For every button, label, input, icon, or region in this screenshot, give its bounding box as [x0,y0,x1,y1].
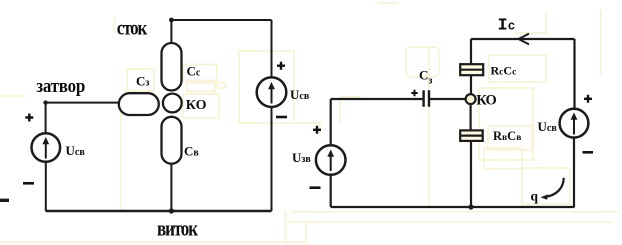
wire: source U2 to bottom wire [271,108,273,212]
wire: gate horizontal [46,102,119,104]
plus Uzv [313,126,321,134]
source U2 Ucv (left circuit, drain side) [257,77,287,107]
svg-text:виток: виток [157,217,199,242]
wire: top wire drain to right branch [171,19,271,21]
charge arrow q [545,178,564,197]
source U4 Ucv (right circuit, right branch) [560,109,589,138]
wire: left branch top [330,99,332,145]
node: bottom junction dot right circuit [468,204,473,209]
wire: bottom wire [46,210,272,212]
capacitor Cv capsule (channel-bulk) [162,117,182,164]
capacitor Cc capsule (drain-channel) [162,43,182,91]
plus U1 [25,114,33,122]
minus U1 [23,182,34,185]
capacitor Cz capsule (gate-channel) [119,93,159,115]
wire: top wire to RcCc [470,39,472,64]
wire: right branch top [573,39,575,108]
node: gate corner dot [43,100,47,104]
current arrow Ic on top wire [519,34,530,45]
source U3 Uzv (right circuit, left branch) [316,145,346,175]
wire: RcCc to node KO [470,76,472,94]
svg-text:КО: КО [476,92,497,108]
wire: left branch bottom [330,175,332,207]
svg-text:затвор: затвор [36,75,85,96]
wire: top wire [471,38,575,40]
svg-text:Iс: Iс [498,17,516,36]
node KO (right circuit) [466,94,476,104]
svg-text:сток: сток [117,17,148,40]
wire: source U1 to bottom wire [45,162,47,211]
svg-text:КО: КО [186,98,207,113]
wire: gate node down to source U1 [45,103,47,134]
wire: RvCv to bottom wire [470,141,472,207]
plus at Cz [411,90,417,96]
source U1 Ucv (left circuit, gate side) [32,133,61,162]
element RvCv (parallel RC box) [460,130,483,141]
wire: cap row left [331,98,423,100]
minus Uzv [310,186,321,189]
node: bottom junction dot [169,208,174,213]
node: drain junction dot [169,18,174,23]
plus Ucv right [584,95,592,103]
capacitor Cz (coupling, right circuit) [424,90,429,107]
wire: cap row right [430,98,465,100]
wire: bottom capsule to bottom wire [170,164,172,211]
minus U2 [276,116,287,119]
minus Ucv right [583,151,594,154]
svg-text:q: q [531,188,539,203]
wire: node KO to RvCv [470,105,472,131]
element RcCc (parallel RC box) [460,64,483,75]
node KO (channel node, left circuit) [163,94,182,113]
plus U2 [277,62,285,70]
wire: right branch bottom [573,139,575,208]
wire: bottom wire [331,206,575,208]
wire: right branch down to source U2 [271,20,273,77]
stray dash bottom-left edge [0,199,9,202]
wire: drain down to top capsule [170,20,172,43]
